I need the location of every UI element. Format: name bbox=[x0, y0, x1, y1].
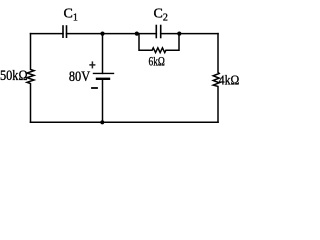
svg-text:50kΩ: 50kΩ bbox=[0, 68, 28, 84]
svg-text:80V: 80V bbox=[69, 69, 91, 85]
svg-text:6kΩ: 6kΩ bbox=[149, 53, 165, 68]
svg-text:4kΩ: 4kΩ bbox=[219, 73, 240, 88]
